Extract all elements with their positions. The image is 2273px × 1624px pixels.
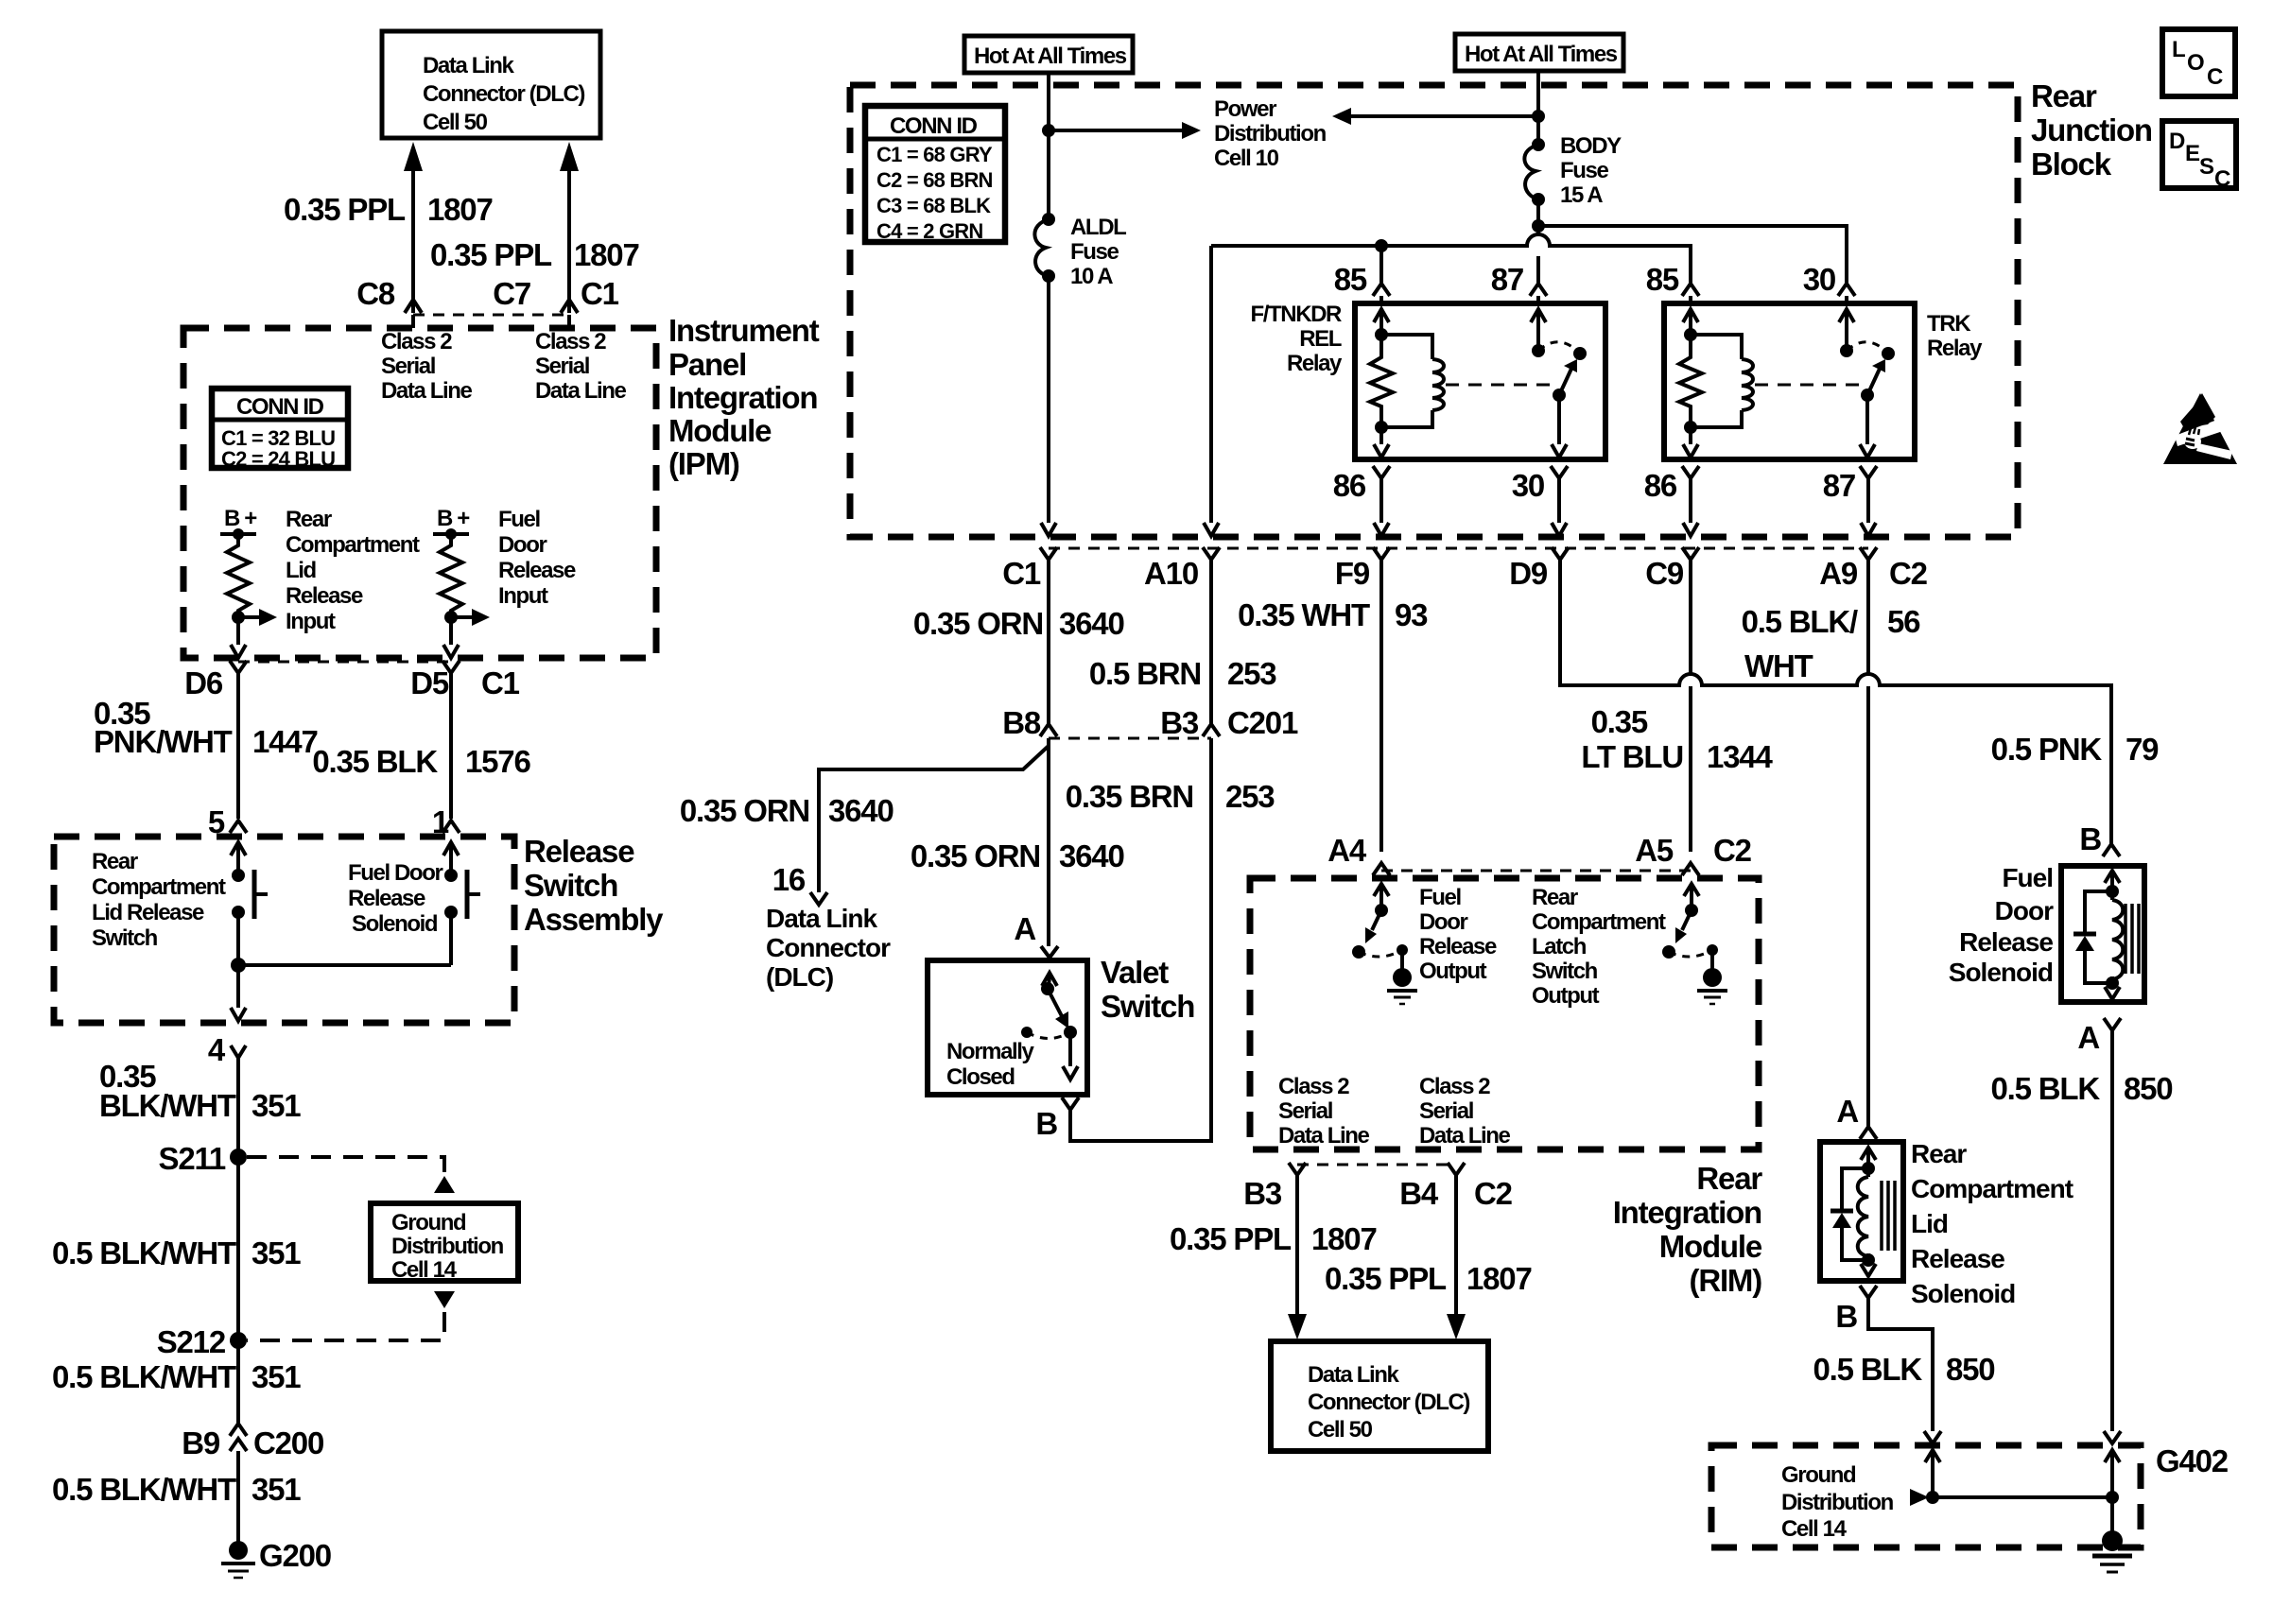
svg-text:93: 93 [1395,597,1428,632]
pin 86 F/TNKDR below [1333,466,1390,536]
G402 right entry arrow [2105,1450,2120,1497]
relay box: TRK Relay [1664,303,1915,459]
label Instrument Panel Integration Module (IPM) [668,313,820,481]
label Rear Compartment Lid Release Input [286,507,420,634]
svg-text:D5: D5 [410,665,449,700]
connector row dashed A4-A5 [1381,870,1691,872]
svg-text:Latch: Latch [1532,934,1587,959]
wire rear solenoid B to G402 [1868,1298,1933,1431]
connector chevron fuel solenoid A [2104,1018,2121,1030]
svg-text:1447: 1447 [252,724,318,759]
svg-text:Cell 14: Cell 14 [1781,1516,1848,1542]
svg-text:3640: 3640 [1059,838,1124,873]
connector chevron pin 4 [231,1045,246,1058]
svg-text:Data Link: Data Link [423,53,514,78]
component box: Fuel Door Release Solenoid [2061,866,2144,1002]
connector row dashed D6-D5 [238,661,451,664]
wire C1 down to B8 [1047,560,1050,724]
wire common horizontal [238,963,451,967]
svg-text:Cell 50: Cell 50 [1308,1417,1373,1443]
svg-text:Switch: Switch [524,868,617,903]
label Fuel Door Release Solenooid [1949,863,2054,987]
svg-text:Class 2: Class 2 [381,329,452,354]
label 0.35 BLK 1576 [312,744,530,779]
connector chevron fuel solenoid B [2103,844,2120,856]
switch: fuel door release [444,869,480,919]
svg-text:253: 253 [1225,779,1275,814]
svg-text:A10: A10 [1144,556,1198,591]
box: Ground Distribution Cell 14 [371,1203,518,1283]
svg-text:Distribution: Distribution [1781,1490,1894,1515]
box: Hot At All Times (right) [1455,34,1623,71]
wire F9 down to RIM A4 [1379,560,1383,852]
svg-text:Class 2: Class 2 [535,329,606,354]
svg-text:Data Line: Data Line [1278,1123,1369,1149]
svg-text:C200: C200 [253,1425,323,1460]
svg-text:PNK/WHT: PNK/WHT [94,724,233,759]
rear solenoid interior: coil with diode [1858,1148,1895,1267]
svg-text:0.35 ORN: 0.35 ORN [680,793,809,828]
svg-text:0.35 ORN: 0.35 ORN [911,838,1040,873]
connector chevron A5 [1682,863,1699,875]
ground G200 [221,1538,331,1578]
svg-text:B: B [1835,1299,1857,1334]
svg-text:C: C [2207,64,2223,90]
svg-text:C8: C8 [356,276,395,311]
svg-text:A9: A9 [1819,556,1858,591]
svg-text:C2: C2 [1713,833,1752,868]
label 0.35 PPL 1807 (B4 wire) [1325,1261,1532,1296]
svg-text:253: 253 [1227,656,1276,691]
svg-text:1807: 1807 [574,237,639,272]
svg-text:Rear: Rear [1696,1161,1762,1196]
fuel solenoid interior: coil with diode [2105,871,2139,990]
connector chevron G402 left entry [1924,1431,1941,1443]
connector chevron B8 [1040,724,1057,736]
svg-text:Connector: Connector [766,933,891,962]
wire C9 down to RIM A5 (gap at D9 hump) [1689,560,1692,852]
connector chevron 85 F/TNKDR [1373,284,1390,296]
connector chevron B3 [1203,724,1220,736]
wire from left hot box down [1047,73,1050,219]
svg-text:Hot At All Times: Hot At All Times [1465,42,1618,67]
svg-text:1807: 1807 [1311,1221,1377,1256]
dashed reference to ground distribution (lower) [247,1291,455,1340]
svg-text:B3: B3 [1160,705,1199,740]
svg-text:Relay: Relay [1287,351,1343,376]
svg-text:0.35 PPL: 0.35 PPL [1170,1221,1292,1256]
svg-text:A5: A5 [1635,833,1674,868]
component box: Rear Compartment Lid Release Solenoid [1820,1142,1903,1281]
svg-text:Instrument: Instrument [668,313,820,348]
splice S211 [159,1141,247,1176]
branch to DLC pin 16 [819,746,1049,892]
label 0.35 LT BLU 1344 (C9 wire) [1581,704,1773,774]
svg-text:Compartment: Compartment [1532,909,1666,935]
valet switch interior (normally closed contact) [1021,973,1078,1080]
svg-text:Fuel: Fuel [2002,863,2053,892]
svg-text:F9: F9 [1335,556,1370,591]
label Rear Junction Block [2031,78,2152,181]
fuse: BODY Fuse 15 A [1524,133,1622,208]
svg-text:C1: C1 [481,665,520,700]
svg-text:Release: Release [286,583,363,609]
connector chevron 30 TRK [1838,284,1855,296]
svg-text:Data Line: Data Line [535,378,626,404]
svg-text:C2: C2 [1889,556,1928,591]
connector chevron 85 TRK [1682,284,1699,296]
module box: Instrument Panel Integration Module (IPM) dashed [183,328,656,658]
svg-text:Ground: Ground [391,1210,466,1235]
TRK 87 exit arrow [1860,395,1875,458]
svg-text:Connector (DLC): Connector (DLC) [423,81,584,107]
label Fuel Door Release Output [1419,885,1497,984]
svg-text:(IPM): (IPM) [668,446,739,481]
pin 86 TRK below [1644,466,1699,536]
svg-text:Door: Door [498,532,547,558]
svg-text:1807: 1807 [427,192,493,227]
label 0.35 PPL 1807 (left wire) [284,192,493,227]
F/TNKDR coil output dot and 86 exit [1374,421,1389,458]
label 0.35 PNK/WHT 1447 [94,696,318,759]
svg-text:Serial: Serial [381,354,435,379]
svg-text:0.35 BLK: 0.35 BLK [312,744,438,779]
svg-text:Release: Release [498,558,576,583]
label Class 2 Serial Data Line (B3) [1278,1074,1369,1149]
svg-text:C3 = 68 BLK: C3 = 68 BLK [876,194,991,217]
svg-text:LT BLU: LT BLU [1581,739,1683,774]
svg-text:Switch: Switch [92,925,158,951]
svg-text:Fuse: Fuse [1560,158,1608,183]
connector chevron C9 [1682,547,1699,560]
connector chevron C7/C1 [561,300,578,313]
svg-text:0.5 BLK: 0.5 BLK [1991,1071,2101,1106]
connector chevron rear solenoid B [1860,1286,1877,1298]
F/TNKDR coil input arrow (85) [1374,309,1389,341]
connector C200 pin B9 [182,1424,323,1460]
svg-text:Rear: Rear [1911,1139,1967,1168]
TRK 30 contact [1839,309,1854,357]
F/TNKDR mech link dashed to coil [1446,384,1551,387]
F/TNKDR coil branch [1381,335,1444,427]
svg-text:Rear: Rear [1532,885,1578,910]
wire from fuel switch down [449,912,453,965]
ground bus wire [1933,1495,2112,1499]
svg-text:S: S [2199,154,2214,180]
svg-text:A: A [1836,1094,1858,1129]
connector row dashed B3-B4 [1297,1164,1456,1166]
svg-text:Fuel Door: Fuel Door [348,860,442,886]
connector chevron pin 1 [442,821,460,833]
arrow right (input signal) [238,609,277,626]
TRK throw arc dashed [1847,342,1888,354]
svg-text:REL: REL [1299,326,1342,352]
arrow from ground distribution text [1910,1489,1929,1506]
svg-text:Panel: Panel [668,347,746,382]
svg-text:Serial: Serial [535,354,589,379]
svg-text:C1 = 68 GRY: C1 = 68 GRY [876,143,993,166]
svg-text:Lid Release: Lid Release [92,900,204,925]
TRK fixed contact dot [1882,347,1895,360]
ground symbol (fuel door output) [1387,968,1417,1004]
svg-text:Switch: Switch [1532,959,1598,984]
svg-text:B8: B8 [1002,705,1041,740]
svg-text:79: 79 [2126,732,2159,767]
svg-text:BLK/WHT: BLK/WHT [99,1088,236,1123]
svg-text:0.5 BLK/WHT: 0.5 BLK/WHT [52,1359,236,1394]
ESD sensitive device symbol [2163,393,2237,464]
svg-text:Serial: Serial [1278,1098,1332,1124]
svg-text:Output: Output [1532,983,1600,1009]
junction dot [232,611,245,624]
connector chevron pin 5 [230,821,247,833]
svg-text:C7: C7 [493,276,530,311]
svg-text:351: 351 [252,1088,301,1123]
relay box: F/TNKDR REL Relay [1355,303,1605,459]
label 0.35 BLK/WHT 351 [99,1059,301,1123]
svg-text:Junction: Junction [2031,112,2152,147]
connector chevron C1 [1040,547,1057,560]
rear lid switch entry arrow [231,842,246,875]
label F/TNKDR REL Relay [1250,302,1343,376]
connector chevron F9 [1373,547,1390,560]
connector row dashed C8-C7 [413,314,569,317]
svg-text:Door: Door [1995,896,2054,925]
connector chevron D9 [1552,547,1569,560]
label Rear Compartment Lid Release Solenoid [1911,1139,2073,1308]
wire down to D5 with arrowhead [443,617,459,658]
svg-text:Block: Block [2031,147,2112,181]
connector chevron valet B [1062,1097,1079,1110]
wire down to F/TNKDR 85 [1379,246,1383,284]
svg-text:30: 30 [1512,468,1544,503]
component box: Valet Switch [928,960,1087,1095]
label 0.35 PPL 1807 (B3 wire) [1170,1221,1377,1256]
wire B3 to DLC with arrow [1288,1175,1307,1339]
wire stub C7 into IPM [567,315,571,328]
svg-text:850: 850 [2124,1071,2172,1106]
label 0.5 BLK/WHT 56 (A9/C2 wire) [1742,604,1921,683]
svg-text:Solenoid: Solenoid [352,911,438,937]
svg-text:Switch: Switch [1101,989,1194,1024]
svg-text:Fuel: Fuel [498,507,540,532]
svg-text:Release: Release [348,886,425,911]
module box: Release Switch Assembly dashed [54,837,514,1023]
connector row dashed B8-B3 (C201) [1049,737,1211,740]
label 0.35 ORN 3640 (C1 wire) [913,606,1124,641]
connector chevron A4 [1373,863,1390,875]
ground G402 symbol [2092,1530,2132,1572]
wire B4 to DLC with arrow [1447,1175,1466,1339]
svg-text:1807: 1807 [1466,1261,1532,1296]
wire stub C8 into IPM [411,315,415,328]
connector chevron B4/C2 (RIM) [1448,1163,1465,1175]
svg-text:Release: Release [1419,934,1497,959]
svg-text:0.35 PPL: 0.35 PPL [430,237,552,272]
svg-text:B4: B4 [1399,1176,1439,1211]
wire from rear lid switch down [236,912,240,965]
wire D9 to fuel solenoid B (humps over C9 and A9/C2) [1560,560,2111,844]
svg-text:C: C [2214,166,2230,192]
svg-text:C1: C1 [581,276,619,311]
label TRK Relay [1927,311,1983,361]
label 0.5 BLK/WHT 351 [52,1235,301,1270]
fuel door switch entry arrow [443,842,459,875]
junction dot power dist tap [1042,124,1055,137]
svg-text:Closed: Closed [946,1064,1015,1090]
wire A9/C2 down to rear solenoid A (gap at D9 hump) [1866,560,1870,1127]
svg-text:C201: C201 [1227,705,1298,740]
svg-text:Class 2: Class 2 [1419,1074,1490,1099]
F/TNKDR fixed contact dot [1573,347,1587,360]
svg-text:3640: 3640 [1059,606,1124,641]
arrow to Power Distribution Cell 10 [1049,122,1201,139]
svg-text:Output: Output [1419,959,1487,984]
F/TNKDR 87 contact [1531,309,1546,357]
module box: Rear Junction Block dashed [850,85,2018,537]
svg-text:Rear: Rear [2031,78,2097,113]
label Rear Integration Module (RIM) [1613,1161,1763,1298]
TRK mech link dashed to coil [1755,384,1859,387]
svg-text:0.35: 0.35 [1591,704,1648,739]
svg-text:Fuse: Fuse [1070,239,1119,265]
svg-text:1576: 1576 [465,744,530,779]
svg-text:Integration: Integration [668,380,817,415]
svg-text:WHT: WHT [1744,648,1813,683]
svg-text:Hot At All Times: Hot At All Times [974,43,1127,69]
label Power Distribution Cell 10 [1214,96,1327,171]
junction dot G402 right [2106,1491,2119,1504]
svg-text:D: D [2169,129,2185,154]
svg-text:Fuel: Fuel [1419,885,1461,910]
svg-text:S211: S211 [159,1141,226,1176]
diode (rear solenoid) [1831,1168,1868,1260]
wire down to pin 4 with arrowhead [231,965,246,1021]
svg-text:BODY: BODY [1560,133,1622,159]
svg-text:Input: Input [498,583,548,609]
svg-text:Release: Release [524,834,634,869]
label 0.35 ORN 3640 (valet wire) [911,838,1124,873]
svg-text:TRK: TRK [1927,311,1971,337]
svg-text:0.5 BLK/: 0.5 BLK/ [1742,604,1858,639]
svg-text:C9: C9 [1645,556,1684,591]
connector chevron A10 [1203,547,1220,560]
switch: fuel door release output driver [1352,884,1408,970]
svg-text:850: 850 [1946,1352,1994,1387]
TRK coil input arrow (85) [1683,309,1698,341]
svg-text:Normally: Normally [946,1039,1035,1064]
label 0.35 PPL 1807 (right wire) [430,237,639,272]
svg-text:Release: Release [1911,1244,2004,1273]
label 0.35 ORN 3640 (DLC 16 branch) [680,793,894,828]
connector chevron B3 (RIM) [1289,1163,1306,1175]
label 0.5 BLK/WHT 351 [52,1472,301,1507]
diode (fuel solenoid) [2073,891,2112,983]
LOC reference box [2162,29,2235,96]
switch: rear compartment latch switch output [1662,884,1718,970]
svg-text:0.35 ORN: 0.35 ORN [913,606,1043,641]
svg-text:Valet: Valet [1101,955,1169,990]
rear solenoid exit arrow [1861,1260,1876,1276]
label Data Link Connector (DLC) [766,904,891,992]
svg-text:Rear: Rear [92,849,138,874]
connector chevron valet A [1041,946,1058,958]
svg-text:L: L [2172,37,2185,62]
svg-text:Assembly: Assembly [524,902,664,937]
svg-text:86: 86 [1333,468,1366,503]
wire A10 down to B3 [1209,560,1213,724]
svg-text:C2 = 68 BRN: C2 = 68 BRN [876,168,993,192]
svg-text:D6: D6 [184,665,223,700]
svg-text:0.35 WHT: 0.35 WHT [1238,597,1370,632]
svg-text:0.5 PNK: 0.5 PNK [1991,732,2103,767]
arrow left to Power Distribution [1332,108,1545,125]
svg-text:B +: B + [224,506,257,531]
wire fuse down to F/TNKDR 87 (hops bus) [1536,234,1540,284]
label Class 2 Serial Data Line (C8) [381,329,472,404]
svg-text:D9: D9 [1509,556,1548,591]
svg-text:C1: C1 [1002,556,1041,591]
resistor (fuel door release input) [440,534,462,617]
svg-text:Lid: Lid [286,558,317,583]
label Class 2 Serial Data Line (B4) [1419,1074,1510,1149]
svg-text:87: 87 [1823,468,1855,503]
wire D6 to pin 5 [236,673,240,819]
svg-text:86: 86 [1644,468,1677,503]
ground symbol (latch switch output) [1697,968,1727,1004]
fuel solenoid exit arrow [2105,983,2120,999]
wire down to D6 with arrowhead [231,617,246,658]
svg-text:Lid: Lid [1911,1209,1948,1238]
junction dot F/TNKDR 85 tap [1375,239,1388,252]
svg-text:Compartment: Compartment [286,532,420,558]
svg-text:Release: Release [1959,927,2053,957]
svg-text:Compartment: Compartment [1911,1174,2073,1203]
label 0.5 BLK 850 (fuel solenoid) [1991,1071,2173,1106]
svg-text:15 A: 15 A [1560,182,1603,208]
svg-text:Rear: Rear [286,507,332,532]
svg-text:351: 351 [252,1359,301,1394]
svg-text:16: 16 [772,862,806,897]
box: Data Link Connector (DLC) Cell 50 (bottom) [1271,1341,1488,1451]
F/TNKDR movable arm with arrow [1553,359,1577,402]
wire ALDL fuse down to C1 with arrowhead [1041,276,1056,536]
connector chevron D6 [230,661,247,673]
wire C8 to DLC with arrow [404,142,423,313]
connector chevron 87 F/TNKDR [1530,284,1547,296]
wire from right hot box down [1536,71,1540,145]
arrow right (input signal) [451,609,490,626]
svg-text:Integration: Integration [1613,1195,1761,1230]
wire valet B to B3 riser [1070,738,1211,1141]
svg-text:351: 351 [252,1472,301,1507]
svg-text:O: O [2187,50,2204,76]
wire to ground G402 [2110,1497,2114,1535]
svg-text:0.35 PPL: 0.35 PPL [1325,1261,1447,1296]
label Normally Closed [946,1039,1035,1090]
svg-text:0.5 BLK: 0.5 BLK [1813,1352,1923,1387]
node B+ (rear compartment input) [220,506,257,540]
label 0.5 BLK/WHT 351 [52,1359,301,1394]
wire fuel solenoid A to G402 [2110,1030,2114,1431]
label 0.5 BRN 253 (A10 wire) [1089,656,1276,691]
connector chevron rear solenoid A [1860,1127,1877,1139]
svg-text:B3: B3 [1243,1176,1282,1211]
svg-text:A: A [2077,1020,2099,1055]
bus wire A10/85/85 with hump over fuse wire [1211,234,1691,284]
resistor (rear compartment lid release input) [227,534,250,617]
connector chevron G402 right entry [2104,1431,2121,1443]
